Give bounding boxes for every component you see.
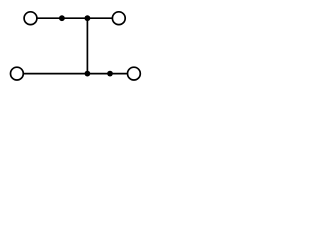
- terminal circle top-right (pin 2): [112, 12, 125, 25]
- junction dot top wire: [59, 15, 65, 21]
- junction dot bottom T-junction: [85, 71, 91, 77]
- terminal circle top-left (pin 1): [24, 12, 37, 25]
- junction dot top T-junction: [85, 15, 91, 21]
- terminal circle bottom-left (pin 3): [11, 67, 24, 80]
- wire top (net A): [37, 17, 113, 19]
- wire vertical bridge: [86, 18, 88, 73]
- junction dot bottom wire: [107, 71, 113, 77]
- terminal circle bottom-right (pin 4): [127, 67, 140, 80]
- wire bottom (net B): [23, 73, 128, 75]
